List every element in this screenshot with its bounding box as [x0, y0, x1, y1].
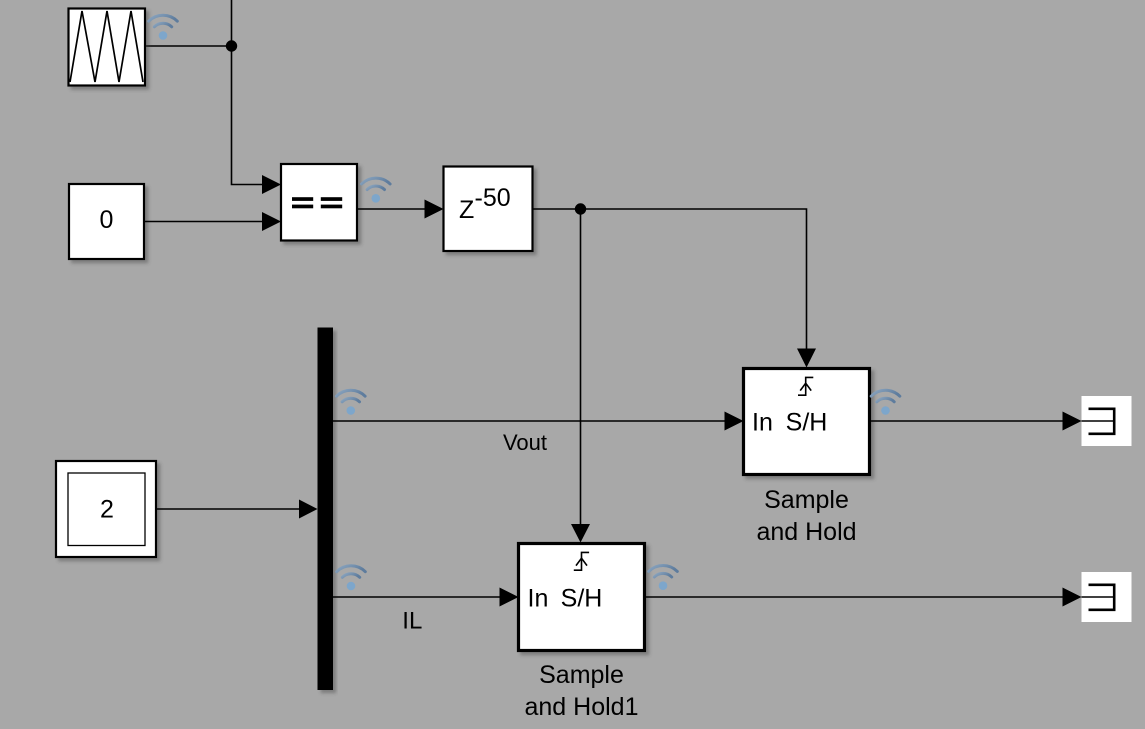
relational operator == block: [281, 164, 357, 241]
svg-text:2: 2: [100, 496, 114, 524]
constant 0 block: [69, 184, 144, 259]
terminator block 1: [1082, 396, 1132, 446]
wire: Sample and Hold1 output to terminator 2: [646, 596, 1063, 598]
svg-text:S/H: S/H: [561, 585, 603, 613]
svg-text:Sample: Sample: [764, 486, 849, 514]
arrowhead down into Sample and Hold1 trigger: [571, 524, 590, 543]
wire: Sample and Hold output to terminator: [871, 420, 1063, 422]
constant 2 block (double border): [56, 461, 156, 557]
arrowhead into == input 2: [262, 212, 281, 231]
delay block Z^-50: [444, 167, 533, 252]
terminator block 2: [1082, 572, 1132, 622]
svg-text:In: In: [528, 585, 549, 613]
arrowhead into Sample and Hold1 In: [500, 588, 519, 607]
svg-text:0: 0: [100, 206, 114, 234]
svg-text:Sample: Sample: [539, 661, 624, 689]
wire: delay output to S/H trigger, with junction: [533, 209, 807, 349]
wire: == output to delay: [358, 208, 425, 210]
arrowhead into delay: [425, 200, 444, 219]
arrowhead into == input 1: [262, 175, 281, 194]
node junction (delay output): [575, 203, 586, 214]
node junction (repeating sequence output): [226, 40, 237, 51]
wire: constant 2 to bus selector: [157, 508, 300, 510]
trigger port icon (Sample and Hold1): [574, 552, 589, 570]
wifi badge (==): [362, 178, 391, 203]
svg-text:S/H: S/H: [786, 409, 828, 437]
svg-text:Vout: Vout: [503, 430, 547, 455]
svg-text:Z: Z: [459, 196, 474, 224]
arrowhead into terminator 2: [1063, 588, 1082, 607]
wifi badge (bus output Vout): [337, 390, 366, 415]
wire: vertical from top edge down to == input row: [232, 0, 263, 185]
arrowhead into bus selector: [299, 500, 318, 519]
svg-text:IL: IL: [402, 608, 422, 635]
svg-text:and Hold: and Hold: [756, 518, 856, 546]
bus selector bar: [318, 328, 334, 691]
wire: constant 0 to == input 2: [145, 221, 263, 223]
arrowhead down into Sample and Hold trigger: [797, 349, 816, 368]
wire: junction down to Sample and Hold1 trigger: [580, 209, 582, 525]
wifi badge (bus output IL): [337, 566, 366, 591]
Sample and Hold block: [744, 369, 870, 475]
wire: repeating sequence output to junction: [146, 45, 232, 47]
wifi badge (Sample and Hold output): [871, 390, 900, 415]
repeating sequence block (sawtooth source): [69, 9, 146, 86]
svg-text:-50: -50: [475, 184, 511, 212]
arrowhead into terminator 1: [1063, 412, 1082, 431]
arrowhead into Sample and Hold In: [725, 412, 744, 431]
Sample and Hold1 block: [519, 544, 645, 651]
wire Vout: bus to Sample and Hold input: [333, 420, 725, 422]
svg-text:In: In: [752, 409, 773, 437]
wifi badge (Sample and Hold1 output): [649, 565, 678, 590]
wire IL: bus to Sample and Hold1 input: [333, 596, 500, 598]
trigger port icon (Sample and Hold): [798, 377, 813, 395]
svg-text:and Hold1: and Hold1: [525, 693, 639, 721]
wifi badge (repeating sequence): [149, 15, 178, 40]
